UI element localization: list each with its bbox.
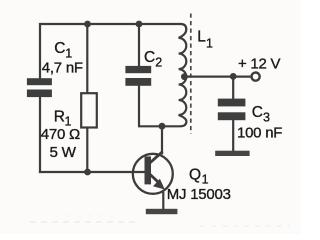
node junction C2 top xyxy=(136,21,143,28)
wire left branch lower xyxy=(39,97,41,174)
svg-text:R: R xyxy=(54,108,65,125)
transistor Q1 xyxy=(133,152,173,194)
node junction collector xyxy=(159,123,166,130)
svg-text:MJ 15003: MJ 15003 xyxy=(167,186,231,203)
svg-text:1: 1 xyxy=(206,37,213,51)
svg-text:2: 2 xyxy=(155,56,162,70)
label C3 xyxy=(252,104,270,124)
wire collector xyxy=(161,126,163,155)
capacitor C3 xyxy=(218,99,246,121)
svg-text:1: 1 xyxy=(65,46,72,60)
svg-text:L: L xyxy=(197,29,206,46)
label Q1 part MJ 15003 xyxy=(167,186,231,203)
svg-text:1: 1 xyxy=(202,172,209,186)
svg-text:470 Ω: 470 Ω xyxy=(41,126,80,143)
node junction C3 top xyxy=(230,73,237,80)
ground Q1 emitter xyxy=(146,209,178,214)
wire R1 branch upper xyxy=(86,24,88,94)
wire top rail xyxy=(40,23,181,25)
label R1 xyxy=(54,108,72,128)
label C1 value 4,7 nF xyxy=(42,59,83,76)
wire R1 branch lower xyxy=(86,128,88,173)
label C3 value 100 nF xyxy=(237,125,282,142)
svg-text:4,7 nF: 4,7 nF xyxy=(42,59,83,76)
capacitor C1 xyxy=(27,78,52,97)
inductor L1 xyxy=(179,24,187,126)
svg-text:C: C xyxy=(144,49,155,66)
wire C2 branch lower xyxy=(138,86,140,127)
capacitor C2 xyxy=(125,66,151,86)
svg-text:C: C xyxy=(54,40,65,57)
node junction bottom-left xyxy=(84,169,91,176)
label L1 xyxy=(197,29,213,51)
wire C2 branch upper xyxy=(138,24,140,67)
wire C3 branch upper xyxy=(232,76,234,99)
svg-text:100 nF: 100 nF xyxy=(237,125,282,142)
svg-text:3: 3 xyxy=(263,111,270,125)
node junction top-left xyxy=(84,21,91,28)
label C2 xyxy=(144,49,162,69)
svg-text:C: C xyxy=(252,104,263,121)
terminal +12V xyxy=(252,73,260,81)
svg-text:Q: Q xyxy=(189,167,201,184)
resistor R1 xyxy=(81,93,97,127)
label R1 power 5 W xyxy=(50,144,77,161)
svg-text:5 W: 5 W xyxy=(50,144,77,161)
wire left branch upper xyxy=(39,23,41,79)
wire tap to supply xyxy=(184,75,251,77)
label C1 xyxy=(54,40,72,60)
wire C3 to ground xyxy=(232,120,234,152)
label R1 value 470 ohm xyxy=(41,126,80,143)
wire emitter xyxy=(162,192,164,210)
label +12 V xyxy=(238,56,281,73)
wire bottom rail xyxy=(39,171,146,173)
ground C3 xyxy=(215,151,249,156)
node L1 tap xyxy=(181,73,188,80)
scan artifacts bottom xyxy=(30,216,290,226)
label Q1 xyxy=(189,167,209,187)
wire bottom loop xyxy=(138,125,180,127)
dashed core line xyxy=(190,14,192,135)
svg-text:+ 12 V: + 12 V xyxy=(238,56,281,73)
